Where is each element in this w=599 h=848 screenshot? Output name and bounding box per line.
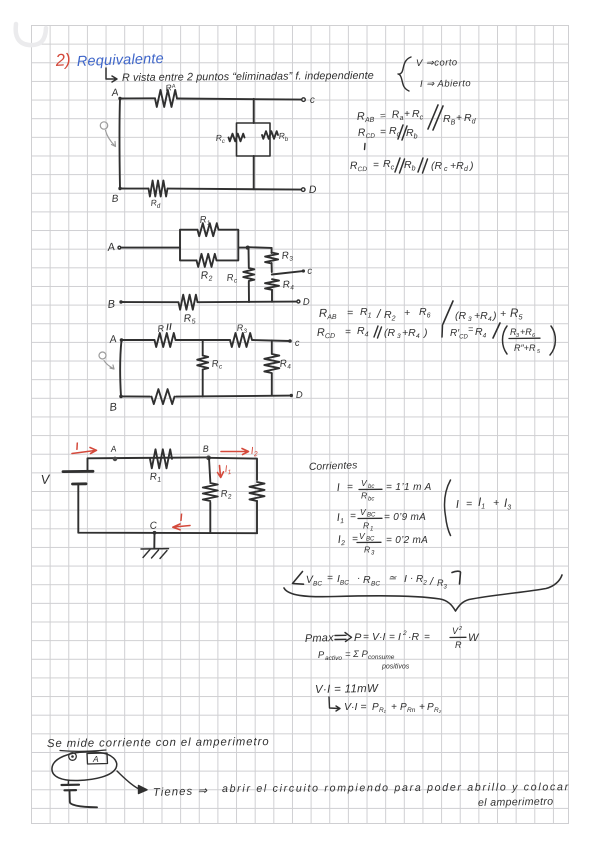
equation I1 (corrientes) (336, 507, 426, 533)
branch R4 (circuit 3) (264, 341, 291, 396)
svg-text:=: = (380, 111, 387, 122)
svg-text:): ) (491, 310, 497, 322)
svg-text:V: V (359, 531, 366, 541)
brace currents (445, 480, 451, 536)
svg-text:R2: R2 (384, 309, 396, 323)
formula P activo (318, 649, 410, 671)
svg-text:Requivalente: Requivalente (77, 51, 165, 70)
svg-text:= 0’9 mA: = 0’9 mA (384, 512, 426, 523)
svg-text:≃: ≃ (388, 573, 397, 584)
svg-text:Rc: Rc (211, 358, 223, 372)
wire bottom B-D (circuit 1) (120, 189, 303, 190)
svg-text:B: B (107, 298, 116, 311)
svg-text:R3: R3 (437, 578, 448, 591)
svg-text:A: A (106, 241, 116, 254)
svg-text:d: d (156, 203, 161, 210)
svg-text:1: 1 (370, 527, 373, 533)
note line (106, 68, 374, 84)
svg-text:Rc: Rc (412, 108, 424, 122)
wire bottom (circuit 2) (121, 301, 297, 304)
wire left A-B (circuit 1) (118, 99, 121, 189)
node D (circuit 1) (301, 184, 317, 196)
svg-text:R4: R4 (279, 358, 291, 372)
svg-text:R: R (361, 491, 367, 501)
node c (circuit 3) (288, 338, 300, 349)
svg-text:=: = (347, 482, 353, 493)
node A (circuit 2) (106, 241, 121, 254)
svg-text:=: = (347, 307, 353, 319)
svg-text:5: 5 (537, 349, 541, 355)
ammeter terminal dot (69, 753, 77, 761)
underbrace flourish (284, 575, 562, 611)
wire battery to top (circuit 4) (88, 457, 209, 471)
node B (circuit 1) (111, 187, 121, 205)
wire battery to bottom (circuit 4) (78, 485, 257, 534)
svg-text:·R: ·R (408, 631, 419, 643)
svg-text:RCD: RCD (358, 126, 376, 140)
svg-text:A: A (108, 333, 118, 346)
resistor bottom (circuit 3) (152, 389, 175, 404)
svg-text:P: P (372, 702, 379, 713)
resistor Rc (circuit 1) (215, 132, 244, 144)
note V corto (416, 57, 458, 69)
svg-text:I: I (179, 512, 184, 524)
formula VI sum (329, 697, 442, 714)
svg-text:R1: R1 (149, 471, 161, 484)
svg-text:R2: R2 (220, 488, 232, 502)
formula RCD (circuit 2) (317, 323, 500, 341)
wire junction right (circuit 2) (248, 246, 272, 249)
svg-text:4: 4 (416, 333, 420, 340)
svg-text:=: = (424, 632, 430, 643)
svg-text:activo: activo (325, 655, 342, 662)
svg-text:I: I (398, 631, 401, 643)
svg-text:R4: R4 (282, 279, 294, 293)
svg-text:Rc: Rc (226, 272, 238, 286)
svg-text:B: B (202, 444, 209, 454)
svg-text:I: I (75, 441, 81, 453)
svg-text:=: = (389, 632, 395, 643)
svg-text:R1: R1 (199, 214, 210, 227)
svg-text:(R: (R (455, 310, 466, 322)
svg-text:R5: R5 (510, 308, 523, 322)
svg-text:·: · (357, 573, 360, 584)
svg-text:3: 3 (397, 333, 401, 340)
parallel box (circuit 1) (237, 123, 271, 156)
svg-text:=: = (380, 127, 386, 138)
node B (circuit 4) (202, 444, 211, 461)
svg-text:·: · (410, 573, 413, 584)
battery V (circuit 4) (40, 471, 93, 487)
svg-text:I2: I2 (337, 534, 345, 548)
svg-text:+: + (391, 702, 397, 713)
svg-text:Tienes ⇒: Tienes ⇒ (153, 785, 209, 799)
svg-text:Pmax: Pmax (305, 632, 335, 645)
svg-text:=: = (327, 573, 333, 584)
svg-text:D: D (296, 390, 304, 401)
svg-text:d: d (464, 166, 469, 173)
ammeter A box (87, 753, 108, 764)
branch Rc (circuit 2) (226, 248, 254, 302)
parallel box wires (circuit 2) (180, 230, 248, 261)
svg-text:el amperimetro: el amperimetro (478, 796, 554, 809)
svg-text:abrir el circuito rompiendo pa: abrir el circuito rompiendo para poder a… (222, 781, 570, 795)
current arrow I2 (circuit 4) (221, 445, 258, 458)
svg-text:P: P (318, 650, 325, 661)
svg-text:I1: I1 (224, 463, 232, 476)
svg-text:R4: R4 (357, 325, 369, 339)
svg-text:=: = (345, 327, 351, 338)
probe arrow (circuit 3) (99, 352, 114, 369)
equation I2 (corrientes) (337, 531, 428, 557)
svg-text:): ) (468, 160, 474, 172)
svg-text:A: A (110, 87, 119, 99)
svg-text:R: R (363, 574, 371, 586)
svg-text:BC: BC (371, 581, 380, 588)
svg-text:V: V (360, 507, 367, 517)
svg-text:2: 2 (402, 630, 407, 637)
svg-text:V·I = 11mW: V·I = 11mW (315, 683, 379, 696)
node B (circuit 3) (109, 395, 123, 414)
tick mark (364, 144, 367, 150)
svg-text:A: A (109, 443, 117, 454)
node D (circuit 2) (297, 297, 310, 308)
svg-text:/: / (376, 307, 382, 321)
svg-text:I3: I3 (504, 498, 511, 512)
svg-text:= 0’2 mA: = 0’2 mA (386, 535, 428, 546)
svg-text:Se mide corriente con el amper: Se mide corriente con el amperimetro (47, 736, 270, 750)
ammeter battery (62, 781, 80, 791)
wire A to box (circuit 2) (121, 247, 180, 249)
svg-text:=: = (352, 534, 358, 545)
svg-text:R: R (157, 323, 165, 334)
wire top (circuit 3) (122, 340, 290, 341)
svg-text:BC: BC (367, 513, 376, 519)
svg-text:Corrientes: Corrientes (309, 460, 358, 473)
svg-text:= Σ P: = Σ P (345, 649, 369, 660)
resistor R5 (circuit 2) (179, 295, 198, 327)
svg-text:+: + (456, 113, 462, 124)
svg-text:c: c (310, 95, 316, 106)
svg-text:V: V (452, 626, 459, 636)
svg-text:I2: I2 (250, 445, 258, 458)
svg-text:I1: I1 (478, 497, 485, 511)
svg-text:c: c (222, 139, 226, 145)
svg-text:RB: RB (443, 113, 456, 127)
resistor Rd (circuit 1) (149, 181, 168, 210)
svg-text:P: P (400, 702, 407, 713)
svg-text:+: + (419, 702, 425, 713)
svg-text:I1: I1 (336, 512, 344, 526)
svg-text:B: B (111, 193, 119, 205)
formula Pmax (305, 626, 480, 650)
formula VBC angle mark (293, 572, 304, 585)
svg-text:c: c (295, 338, 301, 349)
node C and ground (circuit 4) (141, 520, 169, 558)
formula RAB (circuit 2) (319, 301, 524, 324)
svg-text:R2: R2 (416, 574, 427, 587)
svg-text:R vista entre 2 puntos “elimin: R vista entre 2 puntos “eliminadas” f. i… (122, 70, 374, 84)
svg-text:3: 3 (468, 316, 472, 323)
svg-text:W: W (468, 632, 480, 644)
svg-text:IBC: IBC (337, 573, 349, 587)
branch Rc (circuit 3) (197, 340, 223, 396)
formula VBC (306, 571, 461, 590)
svg-text:/: / (429, 576, 434, 588)
svg-text:c: c (307, 266, 313, 277)
formula fraction (circuit 2) (503, 326, 556, 355)
svg-text:Rn: Rn (407, 707, 416, 714)
svg-text:C: C (149, 520, 158, 532)
svg-text:I: I (336, 482, 340, 494)
svg-text:R3: R3 (281, 250, 293, 264)
node A (circuit 4) (109, 443, 117, 461)
svg-text:R′CD: R′CD (450, 328, 468, 341)
svg-text:B: B (109, 401, 118, 414)
resistor Ra (circuit 1) (155, 82, 177, 107)
node D (circuit 3) (290, 390, 304, 401)
resistor Rb (circuit 1) (262, 130, 289, 142)
wire bottom (circuit 3) (121, 396, 291, 397)
svg-text:RAB: RAB (357, 110, 375, 124)
svg-text:R: R (455, 640, 462, 650)
title heading (54, 50, 164, 70)
svg-text:= 1’1 m A: = 1’1 m A (386, 482, 432, 493)
note I abierto (420, 78, 471, 90)
svg-text:consume: consume (368, 654, 395, 661)
svg-text:2: 2 (458, 626, 462, 632)
decor watermark arc (16, 24, 46, 45)
svg-text:V ⇒corto: V ⇒corto (416, 57, 458, 69)
svg-text:I: I (404, 573, 407, 585)
ammeter blob (52, 752, 117, 781)
svg-text:RCD: RCD (350, 159, 368, 173)
node B (circuit 2) (107, 298, 123, 311)
svg-text:+R: +R (520, 327, 532, 337)
svg-text:P: P (354, 632, 362, 644)
node A (circuit 3) (108, 333, 124, 346)
svg-text:BC: BC (366, 537, 375, 543)
svg-text:c: c (444, 166, 448, 173)
wire mid upper (circuit 1) (253, 99, 255, 123)
svg-text:BC: BC (313, 581, 322, 588)
svg-text:Rb: Rb (404, 159, 416, 173)
resistor R3 (circuit 2) (265, 248, 294, 272)
formula RCD (circuit 1) (358, 125, 418, 141)
sentence se mide (47, 736, 270, 751)
svg-text:A: A (170, 83, 176, 90)
node c (circuit 1) (302, 95, 315, 106)
svg-text:R: R (363, 521, 369, 531)
svg-text:): ) (422, 327, 428, 339)
branch R2 (circuit 4) (203, 458, 232, 533)
arrow to tienes (117, 771, 147, 794)
svg-text:P: P (427, 702, 434, 713)
svg-text:+R: +R (402, 327, 416, 339)
svg-text:2): 2) (54, 50, 71, 70)
svg-text:=: = (373, 160, 379, 171)
formula RCD full (circuit 1) (350, 158, 474, 173)
svg-text:D: D (309, 184, 318, 196)
svg-text:(R: (R (431, 160, 442, 172)
current arrow I in (circuit 4) (72, 441, 97, 454)
svg-text:R4: R4 (475, 326, 487, 340)
svg-text:=: = (468, 324, 473, 334)
brace cases (398, 57, 411, 91)
svg-text:=: = (363, 632, 369, 643)
svg-text:Rb: Rb (406, 127, 418, 141)
svg-text:=: = (466, 498, 472, 510)
resistor R1 (circuit 2) (198, 214, 219, 236)
svg-text:V: V (361, 478, 368, 488)
svg-text:+: + (404, 307, 410, 319)
svg-text:+: + (500, 308, 506, 320)
svg-text:R1: R1 (360, 306, 372, 320)
svg-text:R2: R2 (200, 269, 213, 284)
resistor R3 (circuit 3) (230, 322, 252, 347)
wire B right (circuit 4) (209, 458, 258, 480)
equation sum currents (456, 497, 512, 512)
svg-text:+: + (404, 109, 410, 120)
svg-text:Ra: Ra (391, 108, 404, 122)
svg-text:bc: bc (368, 497, 374, 503)
probe arrow (circuit 1) (100, 122, 115, 147)
wire to c (circuit 2) (272, 266, 313, 277)
branch R3 (circuit 4) (250, 482, 265, 533)
svg-text:V·I: V·I (372, 631, 386, 643)
svg-text:R″+R: R″+R (514, 343, 536, 353)
svg-text:V: V (40, 471, 51, 487)
svg-text:R5: R5 (183, 312, 196, 327)
svg-text:+: + (493, 497, 499, 509)
svg-text:D: D (303, 297, 311, 308)
resistor R4 (circuit 2) (265, 279, 295, 302)
ammeter ground wire (70, 791, 98, 808)
current arrow I return (circuit 4) (173, 512, 190, 530)
svg-text:A: A (92, 754, 99, 764)
resistor R1 (circuit 4) (149, 449, 172, 484)
junction dot (circuit 2) (246, 246, 250, 250)
wire mid lower (circuit 1) (253, 156, 255, 189)
svg-text:b: b (285, 137, 290, 143)
equation I (corrientes) (336, 478, 431, 503)
current arrow I1 (circuit 4) (218, 463, 233, 477)
resistor R2 (circuit 2) (197, 254, 217, 284)
svg-text:RAB: RAB (319, 307, 337, 321)
svg-text:positivos: positivos (381, 664, 410, 671)
svg-text:R₁: R₁ (379, 707, 386, 714)
svg-text:Rc: Rc (383, 158, 395, 172)
node A (circuit 1) (110, 87, 122, 100)
svg-text:=: = (350, 511, 356, 522)
svg-text:Rd: Rd (464, 112, 477, 126)
svg-text:3: 3 (371, 551, 375, 557)
svg-text:R6: R6 (419, 306, 431, 320)
svg-text:R: R (364, 545, 370, 555)
svg-text:+R: +R (450, 160, 464, 172)
svg-text:I ⇒ Abierto: I ⇒ Abierto (420, 78, 471, 90)
svg-text:RCD: RCD (317, 326, 336, 340)
svg-text:R₂: R₂ (434, 707, 442, 714)
svg-text:(R: (R (384, 327, 395, 339)
formula RAB (circuit 1) (357, 105, 477, 130)
svg-text:4: 4 (488, 316, 492, 323)
resistor Rpar (circuit 3) (155, 323, 176, 347)
wire top A-c (circuit 1) (120, 98, 303, 99)
wire left (circuit 3) (120, 340, 121, 396)
svg-text:I: I (456, 499, 461, 511)
svg-text:+R: +R (474, 310, 488, 322)
svg-text:V·I =: V·I = (344, 701, 366, 713)
